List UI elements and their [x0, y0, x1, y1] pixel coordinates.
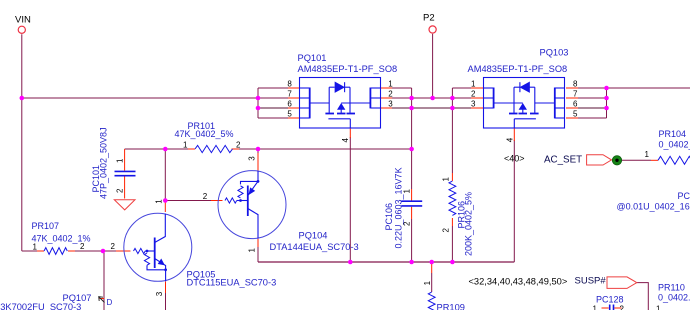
- svg-text:47P_0402_50V8J: 47P_0402_50V8J: [99, 127, 109, 199]
- svg-text:PR109: PR109: [437, 303, 465, 310]
- svg-text:5: 5: [573, 110, 578, 119]
- node PR107 junction: [101, 249, 106, 254]
- svg-text:1: 1: [656, 305, 661, 310]
- capacitor PC106: [401, 201, 422, 206]
- wire PQ101 pin8: [258, 87, 288, 89]
- svg-text:PQ103: PQ103: [540, 47, 569, 57]
- transistor PQ105: [124, 213, 192, 281]
- svg-text:N3K7002FU_SC70-3: N3K7002FU_SC70-3: [0, 302, 81, 310]
- wire PQ101 pin4 down to bus: [349, 137, 351, 262]
- node PQ101 left pin7: [256, 96, 261, 101]
- wire PQ104 base tap: [165, 200, 211, 202]
- pin numbers PQ103 right: [573, 80, 578, 119]
- wire PC106 string: [411, 149, 413, 189]
- svg-text:3: 3: [247, 156, 256, 161]
- terminal P2: [429, 26, 436, 33]
- pin stubs PQ103 right: [566, 87, 578, 89]
- wire VIN rail to PQ101 pin7: [22, 97, 288, 99]
- pin stubs PQ101 left: [288, 87, 299, 89]
- svg-text:2: 2: [111, 242, 116, 251]
- pin stub PQ105 collector: [164, 201, 166, 212]
- svg-text:4: 4: [341, 138, 350, 143]
- wire PQ103 right pins to bracket: [578, 87, 607, 89]
- svg-text:<32,34,40,43,48,49,50>: <32,34,40,43,48,49,50>: [469, 276, 568, 286]
- pin stubs PR107: [37, 250, 44, 252]
- svg-text:P2: P2: [423, 12, 435, 23]
- mosfet PQ101: [300, 78, 381, 129]
- wire PQ101 left bracket vertical: [257, 88, 259, 118]
- pin stubs PC128: [602, 307, 609, 309]
- svg-text:1: 1: [388, 80, 393, 89]
- svg-text:PC128: PC128: [596, 294, 624, 304]
- svg-text:47K_0402_5%: 47K_0402_5%: [175, 129, 234, 139]
- svg-text:PQ104: PQ104: [299, 230, 328, 240]
- node PQ103 right pin8: [604, 86, 609, 91]
- terminal VIN: [18, 26, 25, 33]
- node bus PC106: [409, 260, 414, 265]
- pin numbers PQ101 left: [287, 80, 292, 119]
- resistor PR101: [195, 145, 233, 152]
- svg-text:1: 1: [183, 140, 188, 149]
- wire PQ104 collector to bus: [257, 247, 259, 262]
- node x452 pin3: [450, 106, 455, 111]
- svg-text:1: 1: [442, 177, 451, 182]
- pin stub PQ103 pin4: [513, 128, 515, 141]
- resistor PR107: [44, 248, 67, 255]
- svg-text:VIN: VIN: [15, 15, 31, 26]
- svg-text:PQ101: PQ101: [298, 53, 327, 63]
- svg-text:1: 1: [115, 158, 124, 163]
- svg-text:0_0402_: 0_0402_: [659, 139, 690, 149]
- wire PQ103 pin1 corner: [452, 87, 471, 89]
- wire PQ105 collector drop: [164, 149, 166, 201]
- capacitor PC128: [610, 305, 614, 310]
- node x411 pin3: [409, 106, 414, 111]
- svg-text:2: 2: [80, 242, 85, 251]
- svg-text:3: 3: [155, 291, 164, 296]
- svg-text:1: 1: [593, 305, 598, 310]
- pin numbers PQ103 left: [471, 80, 476, 109]
- svg-text:PR104: PR104: [659, 129, 687, 139]
- wire PR109 drop: [431, 273, 433, 292]
- resistor PR106: [449, 181, 456, 215]
- pin stub PQ104 base: [211, 200, 223, 202]
- wire PQ101 pin5: [258, 117, 288, 119]
- wire PQ101 pin6: [258, 107, 288, 109]
- wire output rail: [607, 87, 690, 89]
- wire PQ104 emitter up: [257, 149, 259, 153]
- net tap AC_SET green dot: [612, 156, 621, 165]
- wire mid rail pin2 row: [392, 97, 471, 99]
- wire P2 drop: [432, 34, 434, 98]
- pin numbers PC101: [115, 158, 124, 193]
- wire PQ103 pin4 down to bus: [513, 140, 515, 262]
- pin numbers PQ104: [203, 156, 256, 253]
- node bus PR106: [450, 260, 455, 265]
- svg-text:1: 1: [645, 150, 650, 159]
- svg-text:DTA144EUA_SC70-3: DTA144EUA_SC70-3: [270, 242, 359, 252]
- svg-text:1: 1: [33, 242, 38, 251]
- wire PQ107 drain drop: [103, 251, 105, 310]
- wire PQ105 emitter down: [165, 293, 167, 310]
- node bus PR109: [429, 260, 434, 265]
- wire bottom bus: [258, 261, 514, 263]
- pin numbers PC106: [402, 189, 411, 227]
- svg-text:SUSP#: SUSP#: [575, 275, 607, 286]
- wire vertical node x452 to PR106: [451, 88, 453, 173]
- node bus PQ101 pin4: [348, 260, 353, 265]
- port flag SUSP#: [607, 277, 637, 289]
- svg-text:0.22U_0603_16V7K: 0.22U_0603_16V7K: [394, 167, 404, 248]
- pin stubs PC106: [411, 189, 413, 201]
- svg-text:3: 3: [388, 100, 393, 109]
- pin stubs PC101: [124, 149, 126, 171]
- svg-text:AM4835EP-T1-PF_SO8: AM4835EP-T1-PF_SO8: [298, 64, 398, 74]
- svg-text:2: 2: [471, 90, 476, 99]
- svg-text:1: 1: [471, 80, 476, 89]
- node PQ103 right pin7: [604, 96, 609, 101]
- svg-text:2: 2: [620, 305, 625, 310]
- svg-text:5: 5: [287, 110, 292, 119]
- resistor PR104: [658, 156, 690, 164]
- svg-text:2: 2: [388, 90, 393, 99]
- capacitor PC101: [115, 171, 136, 175]
- svg-text:1: 1: [423, 280, 432, 285]
- svg-text:<40>: <40>: [504, 154, 525, 164]
- wire AC_SET to PR104: [622, 159, 651, 161]
- svg-text:6: 6: [573, 100, 578, 109]
- svg-text:D: D: [107, 298, 113, 307]
- transistor PQ107 fragment arrow: [99, 297, 105, 303]
- wire SUSP# down right: [637, 283, 649, 310]
- svg-text:7: 7: [287, 90, 292, 99]
- svg-text:PR110: PR110: [658, 282, 685, 292]
- svg-text:PR107: PR107: [32, 221, 60, 231]
- svg-text:2: 2: [402, 221, 411, 226]
- resistor PR109: [428, 292, 435, 310]
- node PQ103 right pin6: [604, 106, 609, 111]
- RED PIN STUBS: [37, 88, 658, 308]
- pin stub PQ107 drain tick: [100, 298, 105, 300]
- pin numbers PR106: [442, 177, 451, 233]
- pin numbers PQ101 right: [388, 80, 393, 109]
- wire PQ101 pin1 to corner: [392, 87, 412, 89]
- pin numbers PR107: [33, 242, 116, 251]
- ground symbol PC101: [114, 200, 135, 210]
- svg-text:200K_0402_5%: 200K_0402_5%: [464, 192, 474, 256]
- wire VIN vertical: [21, 34, 23, 251]
- svg-text:2: 2: [236, 140, 241, 149]
- svg-text:@0.01U_0402_16: @0.01U_0402_16: [617, 201, 690, 211]
- pin numbers PQ105: [155, 199, 165, 296]
- pin stub PQ105 base: [116, 250, 131, 252]
- port flag AC_SET: [587, 155, 612, 165]
- svg-text:7: 7: [573, 90, 578, 99]
- svg-text:DTC115EUA_SC70-3: DTC115EUA_SC70-3: [187, 277, 277, 287]
- pin numbers PC128: [593, 305, 625, 310]
- wire PR106 bottom to bus: [451, 226, 453, 262]
- pin stub PQ104 emitter: [257, 153, 259, 170]
- wire PR107 row: [22, 250, 37, 252]
- pin stubs PR106: [451, 173, 453, 181]
- svg-text:AC_SET: AC_SET: [544, 155, 582, 166]
- pin stubs PR101: [188, 148, 195, 150]
- pin stub PR109: [431, 262, 433, 273]
- svg-text:1: 1: [402, 189, 411, 194]
- transistor PQ104: [218, 171, 286, 239]
- node x452 pin2: [450, 96, 455, 101]
- pin stub PQ105 emitter: [165, 282, 167, 294]
- node PQ104 base tap: [163, 198, 168, 203]
- node VIN rail: [20, 96, 25, 101]
- pin stubs PQ101 right: [381, 87, 392, 89]
- svg-text:6: 6: [287, 100, 292, 109]
- pin stubs PQ103 left: [471, 87, 483, 89]
- svg-text:8: 8: [573, 80, 578, 89]
- node gate rail right: [409, 147, 414, 152]
- node x411 pin2: [409, 96, 414, 101]
- pin stub PQ101 pin4: [349, 128, 351, 138]
- wire pin3 row ladder: [392, 107, 471, 109]
- node PQ101 left pin6: [256, 106, 261, 111]
- svg-text:1: 1: [155, 199, 164, 204]
- pin numbers PR101: [183, 140, 241, 149]
- node P2 join: [430, 96, 435, 101]
- svg-text:2: 2: [115, 188, 124, 193]
- mosfet PQ103: [484, 78, 565, 129]
- pin stub PQ104 collector: [257, 239, 259, 247]
- svg-text:PC106: PC106: [384, 203, 394, 231]
- wire PQ103 right bracket vertical: [606, 88, 608, 118]
- svg-text:PC: PC: [678, 191, 690, 201]
- node gate rail mid: [256, 147, 261, 152]
- node gate rail left: [163, 147, 168, 152]
- wire vertical node x411: [411, 88, 413, 149]
- svg-text:0_0402.: 0_0402.: [658, 293, 690, 303]
- svg-text:3: 3: [471, 100, 476, 109]
- svg-text:4: 4: [505, 137, 514, 142]
- svg-text:AM4835EP-T1-PF_SO8: AM4835EP-T1-PF_SO8: [468, 64, 568, 74]
- wire gate node rail y149: [125, 148, 188, 150]
- pin stub PR104: [651, 159, 658, 161]
- svg-text:2: 2: [203, 192, 208, 201]
- svg-text:8: 8: [287, 80, 292, 89]
- svg-text:1: 1: [247, 248, 256, 253]
- svg-text:2: 2: [442, 228, 451, 233]
